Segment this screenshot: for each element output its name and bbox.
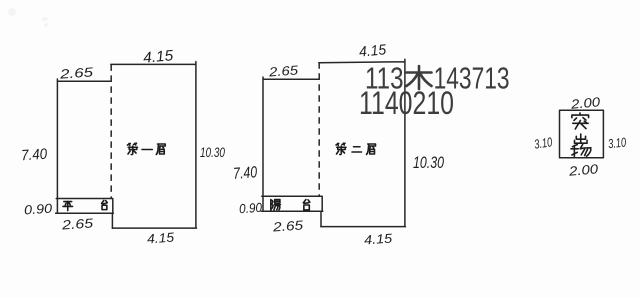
svg-text:2.65: 2.65 — [60, 215, 94, 232]
char 物 — [571, 145, 591, 157]
svg-text:2.00: 2.00 — [569, 94, 601, 112]
first-floor wall segment below platform — [111, 213, 113, 228]
label 第一層 (first floor) — [128, 143, 166, 154]
projection box outline — [560, 110, 604, 158]
second-floor annex (left narrow room) top and left walls — [263, 77, 319, 211]
faint paper smudges top-left — [8, 8, 48, 27]
label 第二層 (second floor) — [336, 143, 376, 154]
char 二 — [352, 147, 362, 152]
first-floor main room outline (solid top/right/bottom) — [111, 62, 197, 229]
char 突 — [572, 113, 589, 129]
svg-text:4.15: 4.15 — [358, 42, 387, 60]
char 平 — [63, 201, 73, 210]
platform strip (平台) outline — [56, 199, 114, 214]
svg-text:7.40: 7.40 — [233, 164, 258, 183]
second-floor wall segment below balcony — [320, 211, 322, 226]
char 一 — [142, 149, 152, 151]
char 第 — [128, 143, 138, 154]
svg-text:1140210: 1140210 — [359, 85, 454, 121]
char 台 — [102, 200, 108, 209]
svg-text:10.30: 10.30 — [413, 153, 444, 172]
stamp char 木 (print) — [407, 66, 432, 89]
char 層 — [156, 144, 165, 155]
first-floor annex (left narrow room) top and left walls — [57, 79, 111, 213]
char 台 — [303, 200, 310, 210]
svg-text:2.65: 2.65 — [58, 64, 94, 81]
first-floor main room left wall (dashed) — [110, 64, 112, 198]
char 陽 — [271, 200, 281, 211]
char 層 — [367, 144, 376, 155]
second-floor main room left wall (dashed) — [318, 62, 320, 196]
svg-text:4.15: 4.15 — [142, 47, 174, 67]
svg-text:3.10: 3.10 — [607, 134, 627, 151]
svg-text:0.90: 0.90 — [24, 200, 54, 217]
svg-text:4.15: 4.15 — [147, 229, 176, 246]
second-floor main room outline (solid top/right/bottom) — [319, 59, 406, 226]
char 第 — [336, 143, 346, 154]
svg-text:2.65: 2.65 — [267, 62, 299, 79]
label 平台 (platform) inside strip — [63, 200, 107, 210]
svg-text:3.10: 3.10 — [533, 134, 553, 151]
label 陽台 (balcony) inside strip — [271, 200, 310, 211]
balcony strip (陽台) outline — [261, 196, 323, 211]
char 出 — [574, 134, 587, 143]
svg-text:0.90: 0.90 — [239, 200, 264, 217]
svg-text:7.40: 7.40 — [21, 146, 49, 165]
svg-text:2.00: 2.00 — [567, 161, 599, 179]
svg-text:10.30: 10.30 — [200, 145, 225, 160]
svg-text:4.15: 4.15 — [364, 230, 394, 247]
label 突出物 (projection) vertical — [571, 113, 591, 157]
svg-text:2.65: 2.65 — [271, 217, 304, 234]
